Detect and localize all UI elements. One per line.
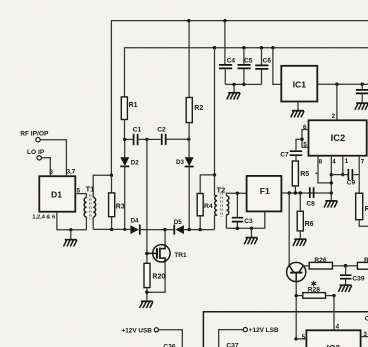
wire: rail B to IC1 input: [273, 48, 281, 85]
op-block IC1: [281, 66, 317, 102]
capacitor C1: [126, 138, 133, 140]
T1 secondary winding: [93, 197, 95, 217]
pin 3 wire: [361, 336, 368, 338]
resistor R2: [188, 21, 190, 98]
svg-text:R26: R26: [314, 257, 326, 264]
svg-text:C6: C6: [263, 57, 272, 64]
wire: D1 pin 5 to T1 primary: [75, 194, 86, 198]
ground (R20): [140, 301, 153, 308]
junction: R28 right / IC3 pin4: [332, 294, 335, 297]
T1 primary winding: [84, 197, 86, 217]
svg-text:D5: D5: [174, 219, 182, 226]
diode D2 (cathode down): [124, 139, 126, 157]
svg-text:5: 5: [303, 141, 307, 148]
junction: pin1 / C9: [341, 173, 344, 176]
wire: R5 bottom stem: [294, 186, 296, 193]
junction: IC1 out / decoupling cap: [361, 83, 364, 86]
pin 4 wire: [330, 156, 332, 201]
junction: pin8/pin4: [330, 181, 333, 184]
diode D3 (cathode down): [185, 157, 194, 166]
resistor R20: [144, 263, 150, 287]
svg-text:R4: R4: [204, 203, 213, 210]
star mark for R28: [311, 281, 316, 287]
wire: +12V USB feed: [159, 330, 183, 347]
ground (D1): [64, 240, 77, 247]
wire: TR1 source down and to R20 bottom: [147, 263, 165, 293]
wire: D5 to T2 node: [184, 229, 215, 231]
wire: IC1 ground stem: [297, 102, 299, 111]
pin 5 wire: [302, 139, 309, 147]
wire: R4 top lead: [200, 175, 214, 194]
svg-text:C9: C9: [347, 179, 356, 186]
wire: D4 to D5: [141, 229, 174, 231]
resistor R7: [356, 193, 363, 220]
box D1 (mixer): [39, 176, 75, 212]
capacitor C5: [243, 48, 245, 64]
svg-text:D2: D2: [131, 159, 139, 166]
pin 6 wire: [302, 130, 309, 140]
pin 7 wire: [358, 156, 360, 194]
junction: R6 top: [299, 191, 302, 194]
svg-text:C39: C39: [352, 275, 364, 282]
junction: R26 / C39 / R27: [344, 264, 348, 268]
svg-text:4: 4: [332, 158, 336, 165]
junction: rail B / IC1 input branch: [271, 46, 274, 49]
svg-text:RF IP/OP: RF IP/OP: [20, 130, 49, 137]
junction: rail B / C5: [242, 46, 245, 49]
junction: D2 bottom: [123, 228, 126, 231]
svg-text:C4: C4: [227, 57, 236, 64]
transistor TR1 (FET): [153, 245, 170, 262]
capacitor C39: [345, 266, 347, 275]
ground (pin4/C8): [324, 201, 337, 208]
resistor R4: [197, 194, 203, 216]
wire: T2 primary bottom lead: [215, 215, 218, 229]
resistor R3: [111, 175, 113, 193]
resistor R27 (clipped at edge): [357, 262, 368, 269]
svg-text:2: 2: [332, 113, 336, 120]
junction: pin4/pin1 link: [330, 173, 333, 176]
junction: rail A / C4 branch: [223, 19, 226, 22]
junction: R3 bottom: [110, 228, 113, 231]
wire: R1 bottom to C1 node: [124, 120, 126, 140]
wire: pin 5 stem to IC3: [294, 337, 297, 340]
node: C1 left junction: [123, 138, 126, 141]
box: lower section boundary: [203, 312, 368, 347]
wire: T2 secondary top to F1 input: [226, 193, 246, 196]
wire: T1 secondary top to rail A node: [93, 175, 111, 197]
ground (C3/F1): [244, 238, 257, 245]
svg-text:R6: R6: [305, 221, 314, 228]
T1 core: [89, 195, 91, 220]
junction: rail B / T2-R4 branch: [213, 46, 216, 49]
capacitor C2: [147, 138, 161, 140]
ground (C4/C5/C6): [227, 93, 240, 100]
junction: C3 top: [236, 192, 239, 195]
junction: R20 bottom / TR1 source: [145, 291, 148, 294]
svg-text:C36: C36: [163, 343, 175, 347]
wire: T2/C3/F1 ground line: [226, 212, 264, 229]
capacitor C9: [348, 169, 352, 180]
capacitor C6: [261, 48, 263, 65]
junction: TR1 drain: [163, 228, 166, 231]
ground (right edge cap): [355, 103, 368, 110]
junction: C8 / pin4 ground node: [330, 191, 333, 194]
svg-text:1,2,4 & 6: 1,2,4 & 6: [32, 214, 55, 220]
ground (R6): [293, 239, 306, 246]
wire: F1 output / C8 node line: [281, 192, 331, 194]
svg-text:C5: C5: [244, 57, 253, 64]
wire: D1 bottom (pins 1,2,4,6) to ground and T1: [57, 212, 87, 230]
capacitor C3: [236, 193, 238, 217]
wire: T2 primary top lead: [215, 175, 218, 196]
svg-text:C1: C1: [133, 127, 142, 134]
wire: T2 secondary bottom lead: [225, 215, 227, 228]
svg-text:R7: R7: [365, 206, 368, 213]
svg-text:C37: C37: [226, 343, 238, 347]
wire: collector line down to transistor: [288, 193, 290, 266]
svg-text:R1: R1: [129, 102, 138, 109]
wire: IC2 pin 2 stem: [336, 84, 338, 120]
wire: R6 bottom stem: [299, 231, 301, 239]
wire: RF terminal to D1 pin 3,7: [40, 140, 66, 177]
svg-text:IC3: IC3: [327, 343, 341, 347]
ground (IC1): [291, 111, 304, 118]
resistor R6: [297, 211, 303, 231]
wire: pin 4 stem to IC3: [333, 296, 335, 331]
wire: pin4 to pin1: [331, 174, 347, 176]
svg-text:R2: R2: [194, 105, 203, 112]
wire: R6 top stem: [299, 193, 301, 211]
svg-text:3: 3: [363, 331, 367, 338]
capacitor C4: [224, 21, 226, 64]
junction: R4 bottom: [199, 228, 202, 231]
svg-text:IC1: IC1: [293, 79, 307, 89]
op-block IC2: [309, 120, 367, 155]
junction: ground stem: [250, 227, 253, 230]
printed speck: [315, 173, 317, 175]
junction: T1 secondary / R3 / rail A: [110, 174, 113, 177]
wire: top supply rail (net A): [111, 21, 368, 176]
wire: R7 bottom lead: [359, 220, 368, 227]
resistor R1: [121, 97, 127, 120]
wire: R2 bottom to D3: [188, 123, 190, 158]
svg-text:5: 5: [302, 334, 306, 341]
junction: D1 ground: [69, 228, 72, 231]
wire: T1 secondary bottom lead: [92, 217, 94, 229]
svg-text:D3: D3: [176, 159, 184, 166]
junction: rail B / C6: [260, 46, 263, 49]
junction: C5 bottom: [242, 83, 245, 86]
svg-text:IC2: IC2: [331, 132, 346, 143]
diode D5 (pointing left): [173, 225, 175, 235]
svg-text:F1: F1: [260, 186, 270, 196]
junction: C2 / R2-D3 line: [187, 138, 190, 141]
resistor R5: [292, 161, 298, 186]
svg-text:+12V USB: +12V USB: [122, 327, 153, 334]
junction: ground stem: [232, 83, 235, 86]
wire: T1 primary bottom lead: [85, 217, 87, 230]
wire: T1/R3/D2 node line to D4: [93, 228, 130, 230]
svg-text:D4: D4: [131, 217, 139, 224]
capacitor C8: [310, 187, 314, 198]
junction: TR1 gate: [145, 252, 148, 255]
svg-text:8: 8: [319, 158, 323, 165]
svg-text:3,7: 3,7: [67, 169, 76, 176]
wire: TR1 gate line from C1-C2 node: [146, 139, 148, 263]
wire: TR1 drain up to D4-D5 node: [164, 230, 166, 244]
T2 primary winding: [215, 196, 217, 215]
svg-text:1: 1: [345, 158, 349, 165]
junction: pins 5-6 / C7: [300, 138, 303, 141]
ground (C39): [338, 285, 351, 292]
diode D4 (pointing right): [130, 225, 138, 234]
junction: D3 bottom: [188, 228, 191, 231]
wire: +12V LSB feed: [219, 330, 244, 347]
junction: R5 bottom: [294, 191, 297, 194]
op-block IC3: [306, 330, 360, 347]
wire to C7: [296, 139, 302, 150]
junction: IC1 out / IC2 pin2: [335, 83, 338, 86]
terminal +12V LSB: [243, 328, 247, 332]
svg-text:R2: R2: [364, 257, 368, 264]
pin 8 wire: [318, 156, 331, 183]
T2 secondary winding: [226, 196, 228, 215]
svg-text:C2: C2: [157, 126, 166, 133]
svg-text:R3: R3: [116, 203, 125, 210]
svg-text:C3: C3: [244, 218, 253, 225]
svg-text:+12V LSB: +12V LSB: [249, 327, 279, 334]
junction: C1-C2 / TR1 gate line: [145, 138, 148, 141]
svg-text:7: 7: [361, 158, 365, 165]
resistor R26: [303, 265, 309, 267]
pin 1 wire: [342, 156, 344, 175]
capacitor C7: [290, 151, 302, 155]
svg-text:C8: C8: [306, 200, 315, 207]
svg-text:C7: C7: [280, 151, 289, 158]
svg-text:LO IP: LO IP: [27, 149, 45, 156]
junction: C3 bottom: [236, 227, 239, 230]
wire: C4-C5-C6 common to ground: [225, 83, 261, 85]
wire: IC1 output line: [317, 83, 368, 85]
wire: TR2 emitter down: [295, 282, 297, 339]
junction: R28 left / TR2 emitter: [295, 294, 298, 297]
junction: R4 top / T2 primary: [213, 173, 216, 176]
T2 core: [221, 193, 223, 218]
svg-text:R20: R20: [152, 273, 165, 280]
wire: second rail (net B): [125, 48, 368, 97]
wire: LO terminal to D1 pin 8: [41, 158, 50, 176]
svg-text:R5: R5: [300, 171, 309, 178]
junction: rail A / R2 branch: [187, 19, 190, 22]
svg-text:6: 6: [303, 124, 307, 131]
wire: rail B down to R4/T2: [214, 48, 216, 175]
capacitor (right edge, decoupling): [361, 84, 363, 89]
junction: transistor branch: [288, 191, 291, 194]
svg-text:TR1: TR1: [174, 252, 187, 259]
transistor TR2: [287, 262, 306, 281]
svg-text:D1: D1: [51, 189, 62, 199]
filter F1: [247, 176, 282, 212]
